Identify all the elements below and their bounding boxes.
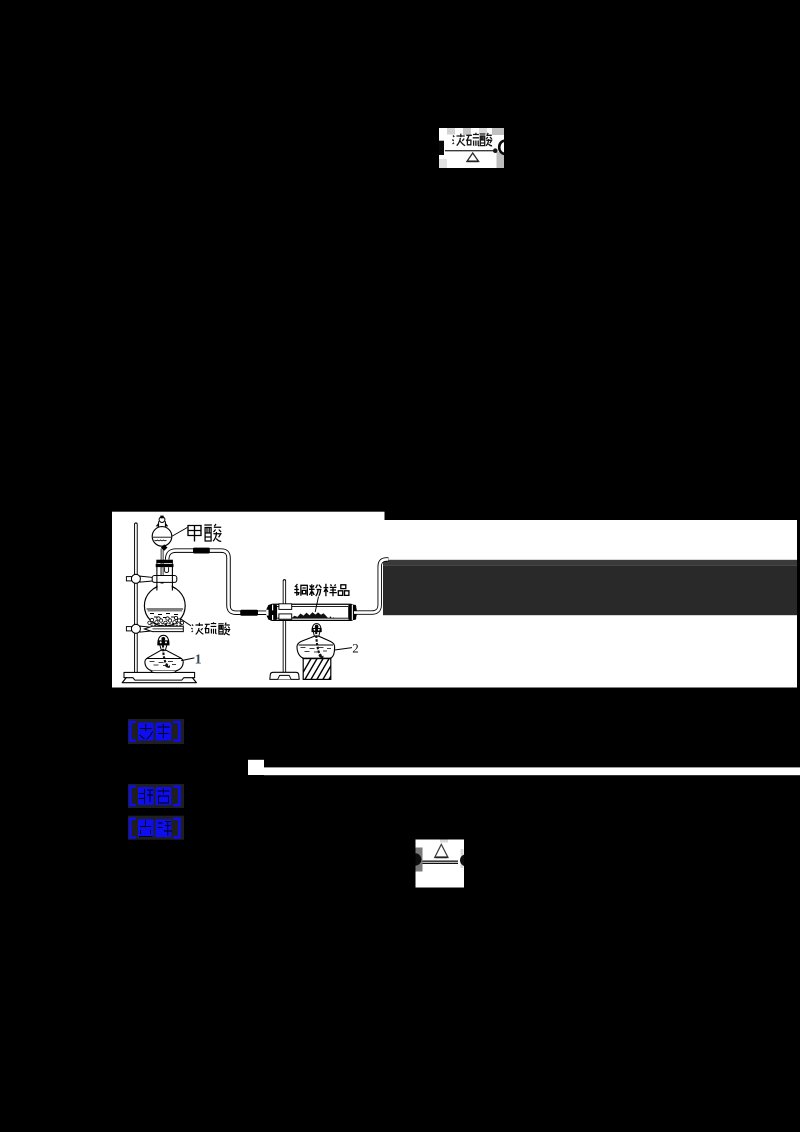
funnel stopcock valve [161,544,168,550]
separating funnel stem [161,549,164,584]
funnel top stopper [156,516,169,527]
label box 1 background [128,719,184,744]
pointer line to 甲酸 [172,528,188,537]
rubber joint before combustion tube [240,610,258,616]
text 粉 [309,584,321,596]
funnel stem tip inside flask [161,568,164,584]
text 样 [324,584,337,596]
dark gray band top edge [383,560,797,566]
svg-text:2: 2 [352,641,359,656]
lower clamp ring [126,624,183,633]
equation condition box (浓硫酸/Δ arrow) [439,128,504,168]
equation condition box (Δ over =) [416,840,465,888]
text 浓 (label) [191,623,203,635]
text 硫 (label) [205,622,217,634]
iron stand 2 rod [283,581,286,673]
iron stand 1 rod [134,524,138,671]
label line to 2 [335,648,352,650]
label box 2 background [128,784,184,808]
reaction arrow [445,150,494,152]
boiling chips under flask [148,616,184,624]
white answer bar [264,767,800,775]
separating funnel bulb 甲酸 [152,521,172,546]
wooden block [298,657,342,682]
round bottom flask 浓硫酸 [144,584,185,626]
stand 2 clamp jaws [279,604,292,619]
text 酸 (label) [204,524,221,541]
PART2:topbox [439,128,510,168]
partial glyph left of = [409,853,472,866]
upper clamp [126,574,176,583]
combustion tube [267,604,356,620]
text 品 [338,585,349,596]
delivery tube 2 out to the right [354,559,389,612]
blue label text 3 【点评】 [130,819,179,838]
text 铜 [294,584,307,596]
text 甲 [188,526,201,542]
pointer line to 铜粉样品 [315,597,318,613]
rubber joint on tube 1 [193,548,210,554]
dark gray band [383,565,797,615]
PART4:bluelabels [128,719,184,840]
inner tube U in neck [165,567,169,572]
iron stand 2 base [270,672,299,679]
label box 3 background [128,816,184,840]
delta triangle [435,844,448,857]
partial glyph right of = [460,854,472,866]
text 浓 (top box) [452,134,465,146]
text 酸 (label2) [218,623,230,635]
iron stand 1 base [122,672,196,682]
PART3:bottombox [409,840,472,888]
diagram image white background right [384,520,798,688]
pointer line to 浓硫酸 [181,619,192,626]
wire gauze [151,623,184,625]
flask rubber stopper [156,560,174,567]
blue label text 2 【解答】 [130,787,179,806]
text 硫 (top box) [466,133,479,146]
white answer bar bump [248,760,264,775]
alcohol lamp 2 [297,624,335,659]
svg-text:1: 1 [195,652,202,667]
combustion tube left stopper [266,605,277,620]
equals sign under triangle [423,861,459,862]
partial glyph left edge [439,141,444,155]
diagram image white background left [112,512,385,688]
text 酸 (top box) [480,133,493,146]
label line to 1 [181,658,194,661]
alcohol lamp 1 [145,635,183,672]
blue label text 1 【考点】 [130,722,180,741]
combustion tube right stopper [348,605,356,620]
gas delivery tube 1 [167,551,271,613]
flask neck [157,563,173,590]
copper powder pile [291,612,329,618]
delta under arrow [467,153,479,162]
partial glyph right edge (O) [499,141,510,154]
